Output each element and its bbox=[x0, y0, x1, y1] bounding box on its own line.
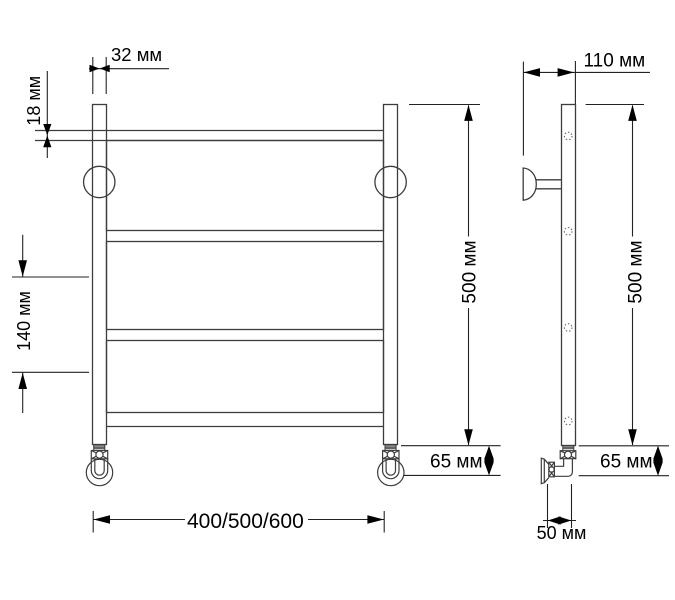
dimension 500 mm front extension and dimension lines bbox=[409, 105, 480, 446]
dimension 32 mm arrowheads bbox=[90, 65, 110, 73]
side wall bracket dome bbox=[523, 168, 536, 200]
dimension 400/500/600 extension and dimension lines bbox=[93, 511, 384, 533]
svg-text:500 мм: 500 мм bbox=[460, 240, 481, 303]
dimension 18 mm dimension line bbox=[46, 71, 48, 158]
svg-text:50 мм: 50 мм bbox=[537, 523, 587, 543]
left wall bracket circle bbox=[84, 166, 115, 197]
front view left post bbox=[93, 105, 107, 445]
mounting hole 2 bbox=[564, 228, 572, 236]
svg-text:140 мм: 140 мм bbox=[14, 291, 34, 351]
dimension 65 mm side double arrowhead bbox=[653, 446, 662, 476]
dimension 65 mm side reference lines bbox=[579, 446, 669, 476]
bottom tube line bbox=[107, 426, 384, 428]
mounting hole 1 bbox=[564, 132, 572, 140]
flange collar with cross pattern bbox=[549, 462, 555, 477]
dimension 140 mm extension and dimension lines bbox=[12, 235, 89, 413]
top tube lower edge bbox=[35, 140, 384, 142]
side view post bbox=[562, 105, 576, 446]
panel rung 1 bbox=[107, 141, 384, 231]
panel rung 2 bbox=[107, 242, 384, 330]
dimension 65 mm front reference lines bbox=[401, 446, 501, 476]
svg-text:65 мм: 65 мм bbox=[430, 452, 483, 473]
dimension 50 mm arrowheads bbox=[548, 516, 572, 524]
side wall bracket stem bbox=[536, 180, 562, 189]
dimension 140 mm arrowheads bbox=[18, 260, 27, 389]
dimension 500 mm side extension and dimension lines bbox=[586, 105, 644, 446]
elbow pipe bbox=[555, 459, 573, 477]
left valve union nut bbox=[91, 451, 107, 459]
dimension 500 mm side arrowheads bbox=[628, 105, 637, 446]
left valve wheel bbox=[86, 459, 112, 486]
svg-text:65 мм: 65 мм bbox=[600, 452, 653, 473]
side elbow fitting bbox=[541, 445, 576, 484]
right valve union nut bbox=[383, 451, 399, 459]
flange cone bbox=[544, 459, 549, 483]
left valve compression rings bbox=[93, 445, 105, 451]
right valve wheel bbox=[378, 459, 404, 486]
mounting hole 4 bbox=[564, 417, 572, 425]
dimension 110 mm arrowheads bbox=[524, 68, 574, 77]
elbow compression rings bbox=[563, 445, 575, 451]
front view right post bbox=[384, 105, 398, 445]
flange wall plate bbox=[541, 458, 544, 484]
svg-text:110 мм: 110 мм bbox=[584, 51, 646, 72]
right valve compression rings bbox=[385, 445, 397, 451]
right wall bracket circle bbox=[375, 166, 406, 197]
dimension 18 mm arrowheads bbox=[43, 124, 51, 147]
svg-text:500 мм: 500 мм bbox=[625, 240, 646, 303]
dimension 50 mm extension and dimension lines bbox=[543, 484, 576, 528]
right valve bbox=[378, 445, 404, 486]
dimension 500 mm front arrowheads bbox=[464, 105, 473, 446]
svg-text:32 мм: 32 мм bbox=[111, 44, 162, 65]
elbow union nut bbox=[560, 451, 576, 459]
svg-text:400/500/600: 400/500/600 bbox=[187, 510, 304, 533]
svg-text:18 мм: 18 мм bbox=[24, 76, 44, 126]
top tube upper edge bbox=[35, 130, 384, 132]
dimension 65 mm front double arrowhead bbox=[484, 446, 493, 476]
dimension 400/500/600 arrowheads bbox=[94, 515, 384, 524]
left valve bbox=[86, 445, 112, 486]
dimension 32 mm extension and dimension lines bbox=[89, 57, 169, 94]
mounting hole 3 bbox=[564, 324, 572, 332]
dimension 110 mm extension and dimension lines bbox=[523, 61, 650, 156]
panel rung 3 bbox=[107, 341, 384, 413]
